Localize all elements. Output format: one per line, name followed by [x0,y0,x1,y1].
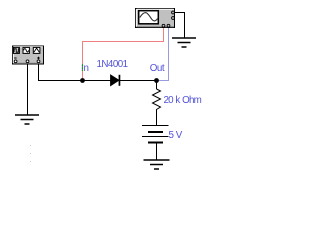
wire (blue): node Out to oscilloscope channel B [156,27,169,81]
node Out junction dot [154,78,159,83]
wire (red): node In up and over to oscilloscope channel A [83,27,164,81]
diode D1 1N4001 [111,75,121,86]
wire: function generator common terminal down to ground [27,63,29,115]
green overlap dashes on In label [82,65,83,72]
ground (function generator) [15,115,39,124]
oscilloscope [136,9,175,28]
battery V1 [142,126,169,143]
wire: main horizontal net from generator to Out node [38,80,156,82]
wire: oscilloscope ground terminal to ground symbol [175,13,185,39]
resistor R1 [153,89,161,111]
wire: resistor bottom to battery [156,111,158,126]
svg-text:5 V: 5 V [169,130,183,141]
wire: function generator + terminal down to main wire [38,63,40,81]
ground (battery) [144,160,170,169]
wire: battery negative to ground [156,143,158,161]
svg-text:1N4001: 1N4001 [97,59,128,70]
svg-text:Out: Out [150,63,165,74]
wire: Out node down to resistor [156,81,158,90]
node In junction dot [80,78,85,83]
svg-text:20 k Ohm: 20 k Ohm [164,95,202,106]
function generator [13,46,44,64]
ground (oscilloscope) [172,38,196,47]
grid dots [30,145,31,162]
